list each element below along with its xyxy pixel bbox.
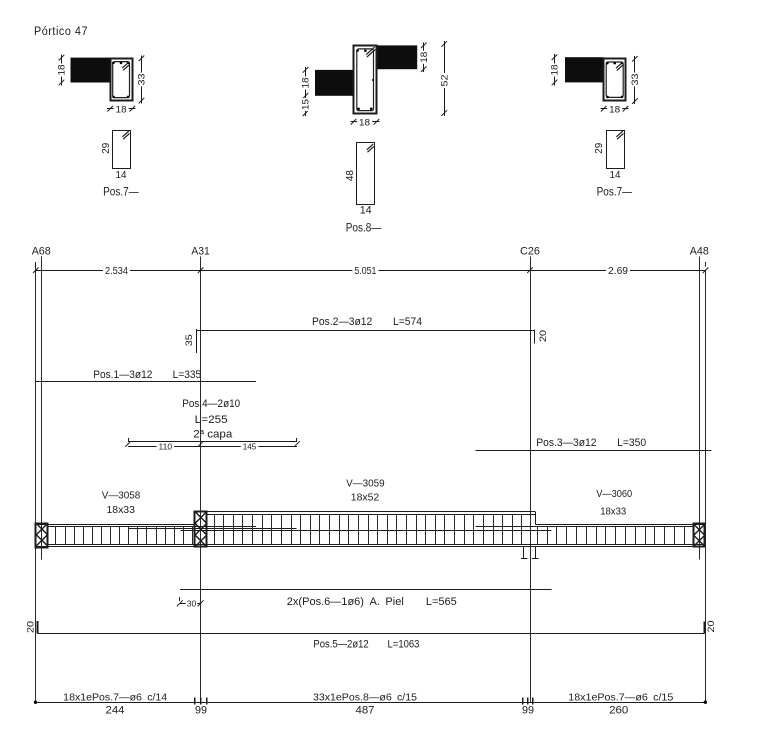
beam step at C26 <box>535 512 537 525</box>
axis line C26 <box>530 257 532 703</box>
section detail V-3058 rebar dots <box>112 62 115 65</box>
beam bottom rebar <box>48 544 705 546</box>
dimension 18 slab left detail3 <box>554 54 556 85</box>
svg-text:18x52: 18x52 <box>351 492 380 504</box>
dimension text 2.534 <box>103 267 130 276</box>
svg-text:5.051: 5.051 <box>354 266 376 277</box>
svg-text:V—3059: V—3059 <box>346 477 385 489</box>
section detail V-3058 beam outline <box>111 59 133 101</box>
stirrup shape Pos.8 break mark <box>367 144 373 150</box>
section detail V-3059 beam outline <box>354 46 377 114</box>
bottom dimension end dot left <box>34 701 37 704</box>
svg-text:260: 260 <box>609 704 628 716</box>
svg-text:33x1ePos.8—ø6 c/15: 33x1ePos.8—ø6 c/15 <box>313 692 417 703</box>
stirrup shape Pos.7 left break mark <box>122 131 128 137</box>
axis line A48 <box>699 257 701 560</box>
top dimension tick A48 <box>703 267 709 273</box>
stirrups V-3060 zone <box>537 527 539 544</box>
dimension text 30 <box>186 600 198 608</box>
section detail V-3058 break mark <box>122 62 128 68</box>
column stub below C26 right face <box>535 546 537 558</box>
section detail V-3059 rebar dots <box>356 49 359 52</box>
dimension text 110 <box>157 443 175 451</box>
svg-text:110: 110 <box>159 442 173 451</box>
rebar Pos.5 line <box>37 633 704 635</box>
svg-text:Pos.8—: Pos.8— <box>346 223 382 235</box>
support column A48 hatch box <box>694 524 705 547</box>
top dimension line <box>36 270 706 272</box>
svg-text:Pos.7—: Pos.7— <box>597 186 633 198</box>
svg-text:18: 18 <box>116 105 127 115</box>
stirrup shape Pos.7 left <box>113 131 131 169</box>
section detail V-3060 break mark <box>616 62 622 68</box>
bottom dimension ticks at A31 <box>194 697 196 704</box>
dimension 33 right detail3 <box>634 56 636 104</box>
section detail V-3059 right slab fill <box>376 45 417 69</box>
dimension 33 right detail1 <box>141 55 143 103</box>
svg-text:Pos.2—3ø12 L=574: Pos.2—3ø12 L=574 <box>312 316 422 328</box>
svg-text:18: 18 <box>609 105 620 115</box>
svg-text:20: 20 <box>706 621 717 633</box>
rebar Pos.5 left hook label 20 <box>26 621 37 633</box>
svg-text:30: 30 <box>187 600 197 609</box>
rebar Pos.5 right hook <box>704 622 706 634</box>
label 29 left <box>100 143 112 154</box>
top dimension tick A31 <box>198 267 204 273</box>
svg-text:14: 14 <box>610 169 621 181</box>
beam bottom edge <box>36 546 705 548</box>
rebar Pos.1 line <box>36 381 256 383</box>
dimension 18 bottom detail2 <box>351 121 380 123</box>
label 48 <box>344 170 356 181</box>
rebar Pos.4 in-beam segment <box>129 528 297 530</box>
beam V-3058 top edge <box>36 524 195 526</box>
svg-text:99: 99 <box>522 704 534 716</box>
svg-text:20: 20 <box>538 330 549 342</box>
beam V-3058 top rebar Pos.1 lap <box>48 526 256 528</box>
beam V-3060 top edge <box>536 524 705 526</box>
svg-text:2.69: 2.69 <box>608 266 628 277</box>
svg-text:Pos.5—2ø12 L=1063: Pos.5—2ø12 L=1063 <box>313 639 419 651</box>
svg-text:18: 18 <box>57 65 67 76</box>
svg-text:14: 14 <box>360 205 372 217</box>
dimension 18 left slab detail2 <box>305 67 307 99</box>
beam V-3060 top rebar Pos.3 lap <box>476 526 694 528</box>
svg-text:Pos.7—: Pos.7— <box>103 186 139 198</box>
extension line left A68 face <box>35 265 37 702</box>
dimension 18 bottom detail1 <box>107 108 135 110</box>
svg-text:18: 18 <box>359 118 370 128</box>
beam V-3059 top rebar <box>207 514 536 516</box>
support column A31 hatch box <box>195 512 207 547</box>
svg-text:C26: C26 <box>520 246 540 258</box>
dimension 110-145 tick right <box>294 441 300 447</box>
svg-text:V—3060: V—3060 <box>596 488 632 500</box>
svg-text:Pórtico 47: Pórtico 47 <box>34 26 88 38</box>
section detail V-3060 slab fill <box>565 57 604 82</box>
top dimension tick C26 <box>527 267 533 273</box>
dimension 18 slab left detail1 <box>61 55 63 86</box>
dimension 30 tick left <box>177 600 183 606</box>
svg-text:52: 52 <box>439 75 449 87</box>
svg-text:18x1ePos.7—ø6 c/15: 18x1ePos.7—ø6 c/15 <box>568 692 673 703</box>
dimension line 110-145 <box>128 446 297 448</box>
section detail V-3060 rebar dots <box>606 62 609 65</box>
svg-text:A68: A68 <box>32 246 51 258</box>
svg-text:145: 145 <box>243 442 257 451</box>
svg-text:18: 18 <box>550 65 560 76</box>
rebar Pos.2 hook label 20 <box>538 330 549 342</box>
beam V-3059 top edge <box>195 511 536 513</box>
svg-text:A31: A31 <box>191 246 210 258</box>
svg-text:33: 33 <box>630 74 640 86</box>
stirrups V-3058 zone <box>55 526 57 544</box>
label 29 right <box>593 143 605 154</box>
dimension 52 right detail2 <box>444 41 446 116</box>
rebar Pos.4 line <box>128 441 297 443</box>
svg-text:15: 15 <box>301 99 311 110</box>
extension line right A48 face <box>705 270 707 702</box>
rebar Pos.2 hook label 35 <box>184 334 195 346</box>
svg-text:A48: A48 <box>690 246 709 258</box>
dimension 15 left detail2 <box>305 96 307 116</box>
stirrup shape Pos.7 right break mark <box>616 131 622 137</box>
top dimension tick A68 <box>33 267 39 273</box>
svg-text:14: 14 <box>116 169 127 181</box>
support column A68 hatch box <box>36 524 48 548</box>
stirrup shape Pos.7 right <box>607 131 625 169</box>
bottom dimension end dot right <box>704 701 707 704</box>
svg-text:L=255: L=255 <box>195 414 228 426</box>
section detail V-3060 beam outline <box>604 59 626 101</box>
section detail V-3059 left slab fill <box>315 70 354 96</box>
rebar Pos.5 right hook label 20 <box>706 621 717 633</box>
svg-text:29: 29 <box>100 143 112 154</box>
rebar Pos.5 left hook <box>37 621 39 634</box>
column stub below C26 break caps <box>521 558 528 560</box>
section detail V-3059 break mark <box>366 47 374 55</box>
svg-text:487: 487 <box>356 704 375 716</box>
svg-text:244: 244 <box>106 704 125 716</box>
stirrups V-3059 zone <box>214 515 216 545</box>
dimension text 2.69 <box>606 267 630 276</box>
rebar Pos.2 left hook 35 <box>196 329 198 353</box>
svg-text:18x33: 18x33 <box>106 504 135 516</box>
svg-text:18x33: 18x33 <box>600 505 626 517</box>
section detail V-3058 stirrup <box>113 62 130 98</box>
bottom dimension ticks at C26 <box>522 697 524 704</box>
svg-text:18: 18 <box>419 52 429 63</box>
section detail V-3058 slab fill <box>71 58 111 83</box>
dimension 110-145 tick middle <box>198 441 204 447</box>
rebar Pos.2 line <box>196 330 534 332</box>
dimension 18 right slab detail2 <box>423 42 425 72</box>
dimension 110-145 tick left <box>125 441 131 447</box>
svg-text:Pos.4—2ø10: Pos.4—2ø10 <box>182 398 240 410</box>
svg-text:2x(Pos.6—1ø6) A. Piel L=565: 2x(Pos.6—1ø6) A. Piel L=565 <box>287 596 457 608</box>
column stub below C26 left face <box>523 546 525 558</box>
bottom dimension line <box>36 702 706 704</box>
axis line A31 <box>200 257 202 703</box>
stirrup shape Pos.8 <box>357 143 375 205</box>
section detail V-3060 stirrup <box>606 62 623 97</box>
svg-text:99: 99 <box>195 704 207 716</box>
dimension text 5.051 <box>352 267 378 276</box>
svg-text:18: 18 <box>301 78 311 89</box>
svg-text:Pos.3—3ø12 L=350: Pos.3—3ø12 L=350 <box>536 437 646 449</box>
svg-text:2ª capa: 2ª capa <box>193 429 233 441</box>
rebar Pos.6 line <box>180 589 552 591</box>
axis line A68 <box>41 257 43 560</box>
dimension 30 line <box>180 603 201 605</box>
svg-text:48: 48 <box>344 170 356 181</box>
rebar Pos.3 line <box>476 450 712 452</box>
svg-text:V—3058: V—3058 <box>102 490 141 502</box>
dimension 18 bottom detail3 <box>601 108 629 110</box>
svg-text:2.534: 2.534 <box>105 266 129 277</box>
svg-text:20: 20 <box>26 621 37 633</box>
svg-text:33: 33 <box>137 74 147 86</box>
svg-text:29: 29 <box>593 143 605 154</box>
section detail V-3059 stirrup <box>357 49 374 111</box>
svg-text:18x1ePos.7—ø6 c/14: 18x1ePos.7—ø6 c/14 <box>63 692 167 703</box>
rebar Pos.2 right hook 20 <box>534 330 536 344</box>
dimension 30 tick right <box>198 600 204 606</box>
rebar Pos.6 skin bar in-beam segment <box>181 530 552 532</box>
svg-text:Pos.1—3ø12 L=335: Pos.1—3ø12 L=335 <box>93 369 201 381</box>
svg-text:35: 35 <box>184 334 195 346</box>
dimension text 145 <box>241 443 259 451</box>
